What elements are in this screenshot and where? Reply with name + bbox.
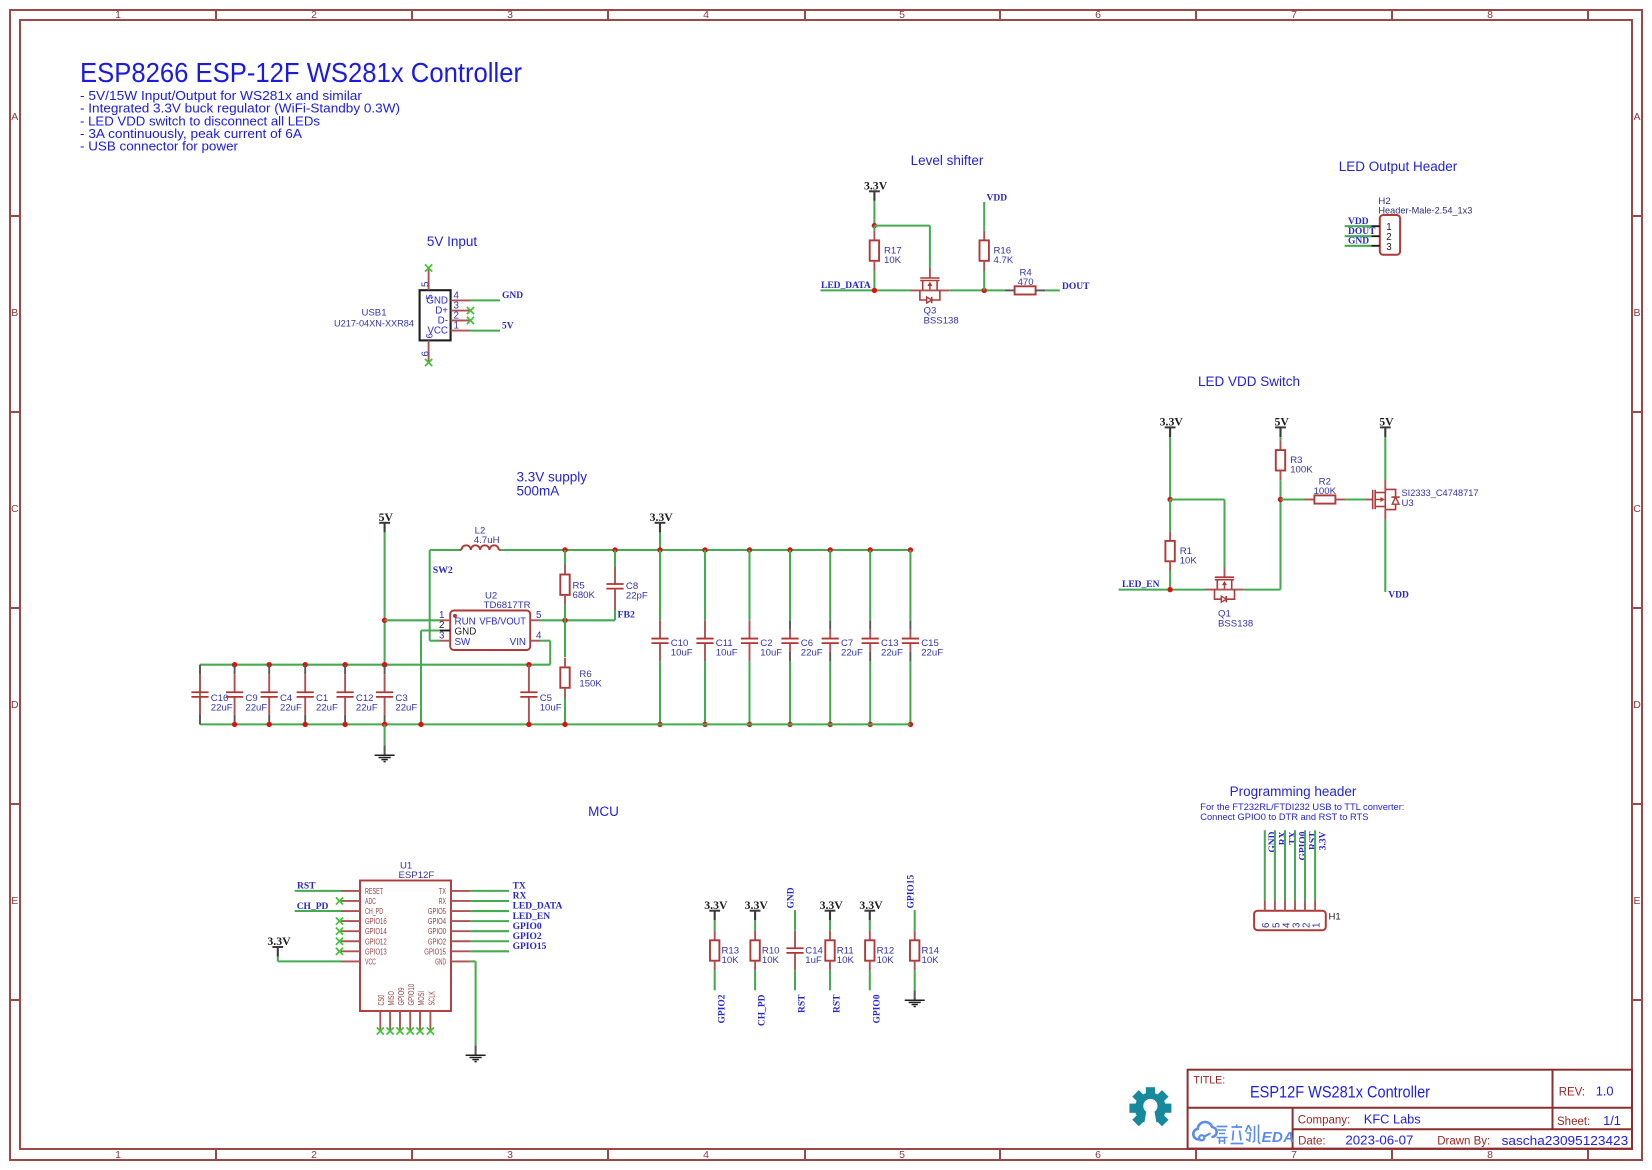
- svg-text:10uF: 10uF: [716, 648, 738, 659]
- net label SW2: [433, 565, 453, 576]
- wire R3 to junction: [1279, 480, 1281, 499]
- svg-text:GPIO5: GPIO5: [428, 907, 447, 916]
- resistor R10 10K: [750, 931, 779, 971]
- svg-text:22uF: 22uF: [841, 648, 863, 659]
- junction gnd rail x=910.4: [908, 722, 913, 727]
- wire VFB/VOUT to FB2 corner: [540, 619, 615, 621]
- ground symbol (R14): [905, 990, 925, 1006]
- header H1: [1254, 911, 1341, 931]
- title block document title: [1250, 1082, 1430, 1101]
- wire R14 to ground: [914, 970, 916, 990]
- capacitor C10 10uF: [651, 550, 692, 724]
- svg-text:A: A: [11, 111, 18, 123]
- net label LED_EN: [1122, 580, 1160, 590]
- wire R5 to VFB wire: [564, 605, 566, 621]
- junction GND rail gnd symbol: [382, 722, 387, 727]
- resistor R11 10K: [825, 931, 854, 971]
- svg-text:FB2: FB2: [618, 610, 636, 621]
- net label RST (U1): [297, 882, 316, 892]
- junction rail top x=870.2: [868, 547, 873, 552]
- junction gnd rail x=870.2: [868, 722, 873, 727]
- svg-text:Sheet:: Sheet:: [1557, 1116, 1590, 1128]
- U1 pin MOSI stub (bottom): [419, 1011, 421, 1030]
- svg-text:1: 1: [115, 9, 121, 21]
- svg-text:10K: 10K: [884, 255, 902, 266]
- svg-text:B: B: [1633, 307, 1640, 319]
- wire gate branch Q1 vertical: [1223, 500, 1225, 568]
- svg-text:VCC: VCC: [365, 957, 376, 966]
- svg-text:SW2: SW2: [433, 565, 453, 576]
- svg-text:7: 7: [1291, 9, 1297, 21]
- svg-text:GPIO2: GPIO2: [717, 994, 727, 1023]
- resistor R5 680K: [560, 565, 595, 605]
- net label GPIO2 (U1 right): [513, 932, 542, 942]
- net label VDD: [1348, 217, 1369, 227]
- svg-text:C: C: [11, 503, 19, 515]
- junction R16 bottom: [982, 288, 987, 293]
- wire junction to R2: [1281, 498, 1306, 500]
- U1 pin TX stub (right): [451, 890, 470, 892]
- power flag 5V (supply input): [379, 510, 394, 533]
- U1 pin GPIO13 stub: [341, 950, 360, 952]
- no-connect X on U1 GPIO12: [336, 938, 343, 945]
- no-connect X on MOSI: [416, 1027, 423, 1034]
- wire VDD to H2: [1345, 225, 1372, 227]
- wire R6 to ground rail: [564, 698, 566, 725]
- power flag 5V (R3): [1274, 415, 1289, 438]
- U1 pin GPIO9 stub (bottom): [399, 1011, 401, 1030]
- U1 pin GPIO16 stub: [341, 920, 360, 922]
- H1 pin 5 stub: [1271, 901, 1282, 929]
- svg-text:10uF: 10uF: [540, 703, 562, 714]
- svg-text:100K: 100K: [1314, 486, 1337, 497]
- svg-text:GPIO15: GPIO15: [424, 947, 446, 956]
- net label CH_PD (U1): [297, 902, 329, 912]
- svg-text:LED Output Header: LED Output Header: [1339, 159, 1458, 174]
- transistor Q1 BSS138: [1205, 567, 1253, 629]
- svg-text:1/1: 1/1: [1603, 1113, 1621, 1128]
- chip U1 ESP12F: [360, 860, 451, 1011]
- wire CH_PD to U1: [295, 910, 341, 912]
- section caption Programming header: [1230, 784, 1357, 799]
- svg-text:10K: 10K: [877, 955, 895, 966]
- no-connect X on GPIO10: [407, 1027, 414, 1034]
- title block Sheet: [1557, 1113, 1621, 1128]
- capacitor C7 22uF: [822, 550, 863, 724]
- section caption Level shifter: [911, 153, 984, 168]
- junction LED_EN / R1: [1167, 587, 1172, 592]
- wire R17 to LED_DATA: [873, 271, 875, 291]
- wire GPIO0 to H1 pin 3: [1294, 830, 1296, 900]
- svg-text:10K: 10K: [762, 955, 780, 966]
- JLCEDA logo: [1193, 1122, 1294, 1146]
- capacitor C3 22uF: [376, 665, 417, 725]
- svg-text:SW: SW: [455, 637, 472, 648]
- wire Q3 drain to junction: [949, 289, 1005, 291]
- H1 pin 2 stub: [1301, 901, 1312, 929]
- junction rail top x=749.5: [747, 547, 752, 552]
- power flag 3.3V (supply out): [650, 510, 674, 533]
- svg-text:10K: 10K: [722, 955, 740, 966]
- resistor R16 4.7K: [980, 231, 1014, 271]
- svg-text:D: D: [11, 699, 19, 711]
- wire 3.3V to R13: [714, 920, 716, 930]
- U2 pin 1 RUN stub: [439, 610, 450, 621]
- wire RX to H1 pin 5: [1274, 830, 1276, 900]
- resistor R13 10K: [710, 931, 739, 971]
- svg-text:RST: RST: [798, 994, 808, 1013]
- capacitor C4 22uF: [261, 665, 302, 725]
- junction gnd rail x=749.5: [747, 722, 752, 727]
- svg-text:TX: TX: [513, 882, 526, 892]
- capacitor C16 22uF: [191, 665, 232, 725]
- svg-text:1: 1: [115, 1149, 121, 1161]
- no-connect X on SCLK: [427, 1027, 434, 1034]
- resistor R2 100K: [1305, 477, 1345, 504]
- wire RUN to 5V column: [385, 619, 440, 621]
- svg-text:RST: RST: [1308, 831, 1318, 850]
- svg-text:GPIO12: GPIO12: [365, 937, 387, 946]
- svg-text:8: 8: [1487, 1149, 1493, 1161]
- svg-text:4: 4: [703, 1149, 709, 1161]
- svg-text:7: 7: [1291, 1149, 1297, 1161]
- wire R1 to LED_EN: [1169, 571, 1171, 590]
- svg-text:ESP12F WS281x Controller: ESP12F WS281x Controller: [1250, 1082, 1430, 1101]
- power flag 3.3V (R11): [820, 898, 844, 921]
- transistor U3 SI2333_C4748717: [1373, 480, 1479, 519]
- wire R11 to net: [829, 970, 831, 990]
- no-connect X on U1 GPIO14: [336, 928, 343, 935]
- svg-text:C: C: [1633, 503, 1641, 515]
- junction GND rail C3: [382, 722, 387, 727]
- wire 3.3V to R10: [754, 920, 756, 930]
- svg-text:3.3V: 3.3V: [1319, 831, 1329, 850]
- capacitor C13 22uF: [862, 550, 903, 724]
- wire R5 junction down to R6: [564, 620, 566, 657]
- net label RX (U1 right): [513, 892, 527, 902]
- svg-text:6: 6: [1095, 1149, 1101, 1161]
- U3 gate lead: [1365, 499, 1372, 501]
- svg-text:5: 5: [899, 9, 905, 21]
- svg-text:5: 5: [424, 294, 434, 299]
- H2 pin 1 stub: [1371, 225, 1380, 227]
- net label TX (H1, rotated): [1288, 831, 1298, 844]
- power flag 3.3V (R13): [704, 898, 728, 921]
- junction rail top x=790: [787, 547, 792, 552]
- power flag 3.3V (level shifter): [864, 178, 888, 201]
- H1 pin 6 stub: [1261, 901, 1272, 929]
- svg-text:U3: U3: [1402, 498, 1414, 509]
- net label GPIO2 (rotated): [717, 994, 727, 1023]
- wire C14 to RST: [794, 970, 796, 990]
- svg-text:RX: RX: [1278, 831, 1288, 845]
- net label DOUT: [1062, 282, 1090, 292]
- svg-text:REV:: REV:: [1559, 1086, 1585, 1098]
- svg-text:TD6817TR: TD6817TR: [484, 600, 531, 611]
- svg-text:10uF: 10uF: [760, 648, 782, 659]
- power flag 3.3V (VCC): [267, 934, 291, 957]
- USB1 pin 4 stub: [451, 290, 470, 301]
- svg-text:GPIO0: GPIO0: [513, 922, 542, 932]
- inductor L2 4.7uH: [459, 526, 501, 550]
- net label GND: [502, 291, 523, 301]
- svg-text:GND: GND: [1268, 831, 1278, 852]
- junction GND rail C12: [342, 722, 347, 727]
- header H2 Header-Male-2.54_1x3: [1378, 196, 1472, 255]
- svg-text:USB1: USB1: [361, 308, 386, 319]
- junction rail/C8 top: [612, 547, 617, 552]
- net label TX (U1 right): [513, 882, 526, 892]
- wire RST to H1 pin 2: [1304, 830, 1306, 900]
- wire R16 to LED_DATA wire: [983, 271, 985, 291]
- wire Q1 drain right: [1244, 589, 1281, 591]
- no-connect X on U1 GPIO16: [336, 918, 343, 925]
- wire R13 to net: [714, 970, 716, 990]
- ground symbol (U1): [466, 1045, 486, 1061]
- wire TX to H1 pin 4: [1284, 830, 1286, 900]
- svg-text:VIN: VIN: [510, 637, 526, 648]
- svg-text:RX: RX: [439, 897, 447, 906]
- junction GND rail C1: [303, 722, 308, 727]
- USB1 pin 1 stub: [451, 321, 470, 332]
- svg-text:6: 6: [424, 333, 434, 338]
- junction GND rail C9: [232, 722, 237, 727]
- wire R4 to DOUT: [1045, 289, 1060, 291]
- svg-text:GND: GND: [1348, 237, 1369, 247]
- svg-text:MISO: MISO: [387, 991, 396, 1006]
- svg-text:500mA: 500mA: [517, 484, 560, 499]
- wire 5V from USB1 pin 1: [470, 330, 500, 332]
- junction rail top x=910.4: [908, 547, 913, 552]
- svg-text:Connect GPIO0 to DTR and RST t: Connect GPIO0 to DTR and RST to RTS: [1200, 812, 1368, 822]
- svg-text:CH_PD: CH_PD: [365, 907, 383, 916]
- svg-text:GND: GND: [787, 887, 797, 908]
- U2 pin 3 SW stub: [439, 630, 450, 641]
- wire U1 to net RX: [470, 900, 509, 902]
- wire junction to R17: [873, 226, 875, 231]
- svg-text:3: 3: [507, 1149, 513, 1161]
- svg-text:3: 3: [1386, 242, 1392, 253]
- svg-text:6: 6: [1095, 9, 1101, 21]
- no-connect X on USB1 pin 2: [467, 317, 474, 324]
- resistor R14 10K: [910, 931, 940, 971]
- junction VIN rail C9: [232, 662, 237, 667]
- svg-text:KFC Labs: KFC Labs: [1364, 1112, 1421, 1127]
- no-connect X on USB1 pin 5: [425, 264, 432, 271]
- U1 pin GPIO14 stub: [341, 930, 360, 932]
- svg-text:5V Input: 5V Input: [427, 234, 478, 249]
- svg-text:680K: 680K: [573, 590, 596, 601]
- svg-text:2: 2: [311, 9, 317, 21]
- junction gnd rail x=660: [657, 722, 662, 727]
- gear logo: [1129, 1087, 1171, 1131]
- svg-text:22uF: 22uF: [245, 703, 267, 714]
- U1 pin GND stub (right): [451, 960, 470, 962]
- svg-text:A: A: [1633, 111, 1640, 123]
- wire 3.3V top rail: [501, 549, 910, 551]
- junction gnd rail x=790: [787, 722, 792, 727]
- wire gnd stem: [384, 724, 386, 745]
- svg-text:CH_PD: CH_PD: [758, 994, 768, 1026]
- title block Company: [1298, 1112, 1421, 1127]
- resistor R17 10K: [870, 231, 902, 271]
- sheet notes: [80, 88, 400, 154]
- svg-text:BSS138: BSS138: [924, 316, 959, 327]
- wire SW2 top segment: [430, 550, 459, 641]
- junction LED_DATA / R17: [872, 288, 877, 293]
- svg-text:GPIO14: GPIO14: [365, 927, 387, 936]
- section caption 3.3V supply 500mA: [517, 470, 588, 499]
- svg-text:GPIO0: GPIO0: [872, 994, 882, 1023]
- U2 pin 5 VFB/VOUT stub: [530, 610, 542, 621]
- svg-text:CS0: CS0: [377, 994, 386, 1005]
- wire 5V to R3: [1279, 437, 1281, 440]
- net label GPIO0 (H1, rotated): [1298, 831, 1308, 860]
- junction GND rail C4: [267, 722, 272, 727]
- wire U1 to net GPIO15: [470, 950, 509, 952]
- capacitor C12 22uF: [337, 665, 378, 725]
- svg-text:3: 3: [507, 9, 513, 21]
- capacitor C5 10uF: [520, 665, 561, 725]
- svg-text:GPIO2: GPIO2: [428, 937, 446, 946]
- wire 5V to U3: [1384, 437, 1386, 480]
- svg-text:1uF: 1uF: [805, 955, 822, 966]
- USB1 pin 2 stub: [451, 311, 470, 322]
- net label LED_EN (U1 right): [513, 912, 551, 922]
- U1 pin CS0 stub (bottom): [379, 1011, 381, 1030]
- junction VIN rail C1: [303, 662, 308, 667]
- net label RX (H1, rotated): [1278, 831, 1288, 845]
- resistor R4 470: [1005, 267, 1045, 294]
- no-connect X on U1 ADC: [336, 897, 343, 904]
- junction R3/R2/Q1: [1278, 497, 1283, 502]
- junction rail top x=830.2: [828, 547, 833, 552]
- power flag 3.3V (R10): [745, 898, 769, 921]
- svg-text:4.7uH: 4.7uH: [474, 535, 500, 546]
- wire GND from USB1 pin 4: [470, 299, 500, 301]
- svg-text:RST: RST: [833, 994, 843, 1013]
- U1 pin GPIO12 stub: [341, 940, 360, 942]
- svg-text:TX: TX: [1288, 831, 1298, 844]
- svg-text:1: 1: [1312, 923, 1323, 928]
- net label DOUT: [1348, 227, 1376, 237]
- svg-text:VFB/VOUT: VFB/VOUT: [479, 616, 526, 627]
- svg-text:5: 5: [899, 1149, 905, 1161]
- svg-text:EDA: EDA: [1262, 1129, 1295, 1146]
- junction VIN rail C4: [267, 662, 272, 667]
- junction VFB/R5: [562, 618, 567, 623]
- wire gate branch horizontal: [874, 225, 930, 227]
- net label 5V: [502, 321, 514, 331]
- capacitor C14 1uF: [786, 931, 823, 971]
- no-connect X on MISO: [387, 1027, 394, 1034]
- svg-text:sascha23095123423: sascha23095123423: [1502, 1133, 1629, 1148]
- U1 pin VCC stub: [341, 960, 360, 962]
- svg-text:4: 4: [703, 9, 709, 21]
- wire LED_EN: [1119, 589, 1206, 591]
- USB1 pin 5 (top stub + number): [420, 270, 431, 291]
- H1 pin 3 stub: [1291, 901, 1302, 929]
- wire GND to C14: [794, 910, 796, 931]
- wire RST to RESET: [295, 890, 341, 892]
- svg-text:BSS138: BSS138: [1218, 619, 1253, 630]
- junction GND rail R6: [562, 722, 567, 727]
- svg-text:1: 1: [454, 321, 459, 332]
- net label LED_DATA (U1 right): [513, 902, 563, 912]
- U1 pin ADC stub: [341, 900, 360, 902]
- capacitor C8 22pF: [606, 550, 648, 620]
- svg-text:LED_DATA: LED_DATA: [513, 902, 563, 912]
- svg-text:GPIO9: GPIO9: [397, 987, 406, 1005]
- wire GND to H1 pin 6: [1264, 830, 1266, 900]
- wire VDD to R16: [983, 202, 985, 231]
- wire U1 to net GPIO0: [470, 930, 509, 932]
- wire R12 to net: [869, 970, 871, 990]
- svg-text:22uF: 22uF: [316, 703, 338, 714]
- svg-text:2: 2: [311, 1149, 317, 1161]
- svg-text:For the FT232RL/FTDI232 USB to: For the FT232RL/FTDI232 USB to TTL conve…: [1200, 802, 1404, 812]
- svg-text:RX: RX: [513, 892, 527, 902]
- wire 3.3V to junction: [873, 201, 875, 226]
- wire rail to R5: [564, 550, 566, 566]
- ground symbol (supply): [375, 745, 395, 761]
- svg-text:22pF: 22pF: [626, 591, 648, 602]
- svg-text:E: E: [1633, 895, 1640, 907]
- svg-text:VDD: VDD: [987, 193, 1008, 203]
- svg-text:10K: 10K: [922, 955, 940, 966]
- svg-text:5V: 5V: [502, 321, 514, 331]
- wire 3.3V flag to rail: [659, 532, 661, 550]
- svg-text:SCLK: SCLK: [427, 990, 436, 1005]
- junction rail/R5 top: [562, 547, 567, 552]
- capacitor C6 22uF: [781, 550, 822, 724]
- svg-text:22uF: 22uF: [395, 703, 417, 714]
- svg-text:6: 6: [420, 351, 431, 357]
- net label GPIO0 (rotated): [872, 994, 882, 1023]
- U1 pin RX stub (right): [451, 900, 470, 902]
- wire GPIO15 to R14: [914, 910, 916, 931]
- wire LED_DATA: [821, 289, 912, 291]
- svg-text:3.3V supply: 3.3V supply: [517, 470, 588, 485]
- wire U1 to net GPIO2: [470, 940, 509, 942]
- connector USB1 U217-04XN-XXR84: [334, 290, 451, 340]
- no-connect X on USB1 pin 3: [467, 307, 474, 314]
- svg-text:8: 8: [1487, 9, 1493, 21]
- resistor R1 10K: [1165, 531, 1197, 571]
- wire U1 GND pin down: [470, 961, 475, 1045]
- wire VIN rail (upper caps rail): [200, 664, 550, 666]
- net label VDD (switch): [1388, 591, 1409, 601]
- wire GND pin down to ground rail: [421, 631, 440, 725]
- resistor R6 150K: [560, 658, 602, 698]
- svg-text:GPIO15: GPIO15: [513, 942, 547, 952]
- wire R10 to net: [754, 970, 756, 990]
- net label GPIO15 (U1 right): [513, 942, 547, 952]
- U1 pin RESET stub: [341, 890, 360, 892]
- svg-text:4.7K: 4.7K: [994, 255, 1014, 266]
- wire GND to H2: [1345, 245, 1372, 247]
- section caption 5V Input: [427, 234, 478, 249]
- wire U3 to VDD: [1384, 519, 1386, 592]
- svg-text:GND: GND: [435, 957, 446, 966]
- no-connect X on CS0: [377, 1027, 384, 1034]
- junction gnd rail x=705: [702, 722, 707, 727]
- svg-text:TITLE:: TITLE:: [1193, 1075, 1225, 1087]
- svg-text:3.3V: 3.3V: [864, 178, 888, 192]
- capacitor C15 22uF: [902, 550, 943, 724]
- svg-text:GPIO0: GPIO0: [1298, 831, 1308, 860]
- svg-text:10K: 10K: [837, 955, 855, 966]
